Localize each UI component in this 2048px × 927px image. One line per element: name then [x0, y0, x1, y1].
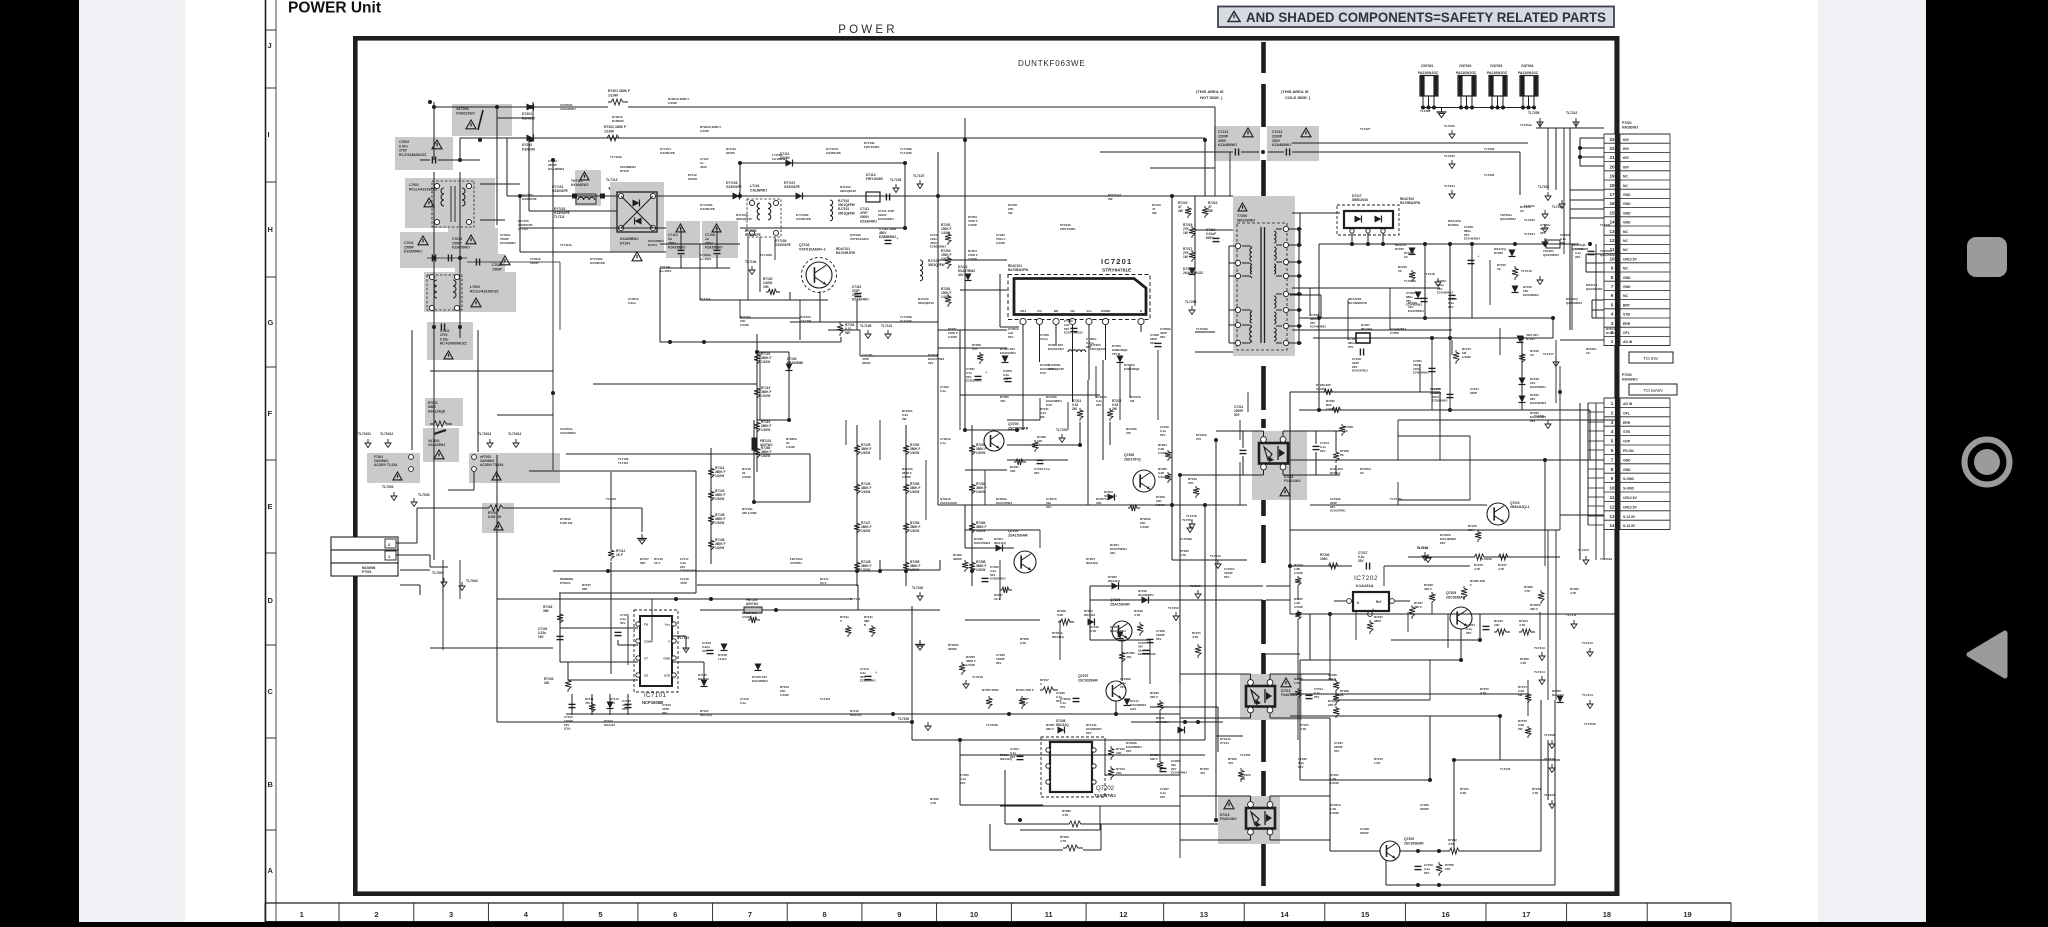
Q7202 pin — [1092, 780, 1096, 784]
pin — [773, 230, 778, 235]
junction — [1366, 242, 1370, 246]
warning triangle — [393, 472, 402, 480]
svg-text:39K: 39K — [543, 609, 550, 613]
diode — [1002, 356, 1009, 363]
pin — [636, 656, 640, 660]
junction — [1416, 849, 1420, 853]
wire — [1276, 325, 1282, 327]
wire — [716, 228, 718, 250]
svg-text:250V: 250V — [1272, 139, 1281, 143]
wire — [571, 694, 573, 715]
svg-text:IC7202: IC7202 — [1354, 575, 1378, 582]
svg-text:K1A431A: K1A431A — [1356, 583, 1374, 588]
svg-text:EXA621WJ: EXA621WJ — [1048, 347, 1064, 351]
wire — [1269, 674, 1271, 680]
resistor — [1326, 563, 1342, 569]
capacitor — [1306, 694, 1313, 696]
junction — [1297, 274, 1301, 278]
diode — [1058, 727, 1065, 734]
svg-text:FXA014WJ: FXA014WJ — [1220, 817, 1237, 821]
wire — [477, 330, 479, 452]
junction — [1448, 242, 1452, 246]
capacitor — [982, 577, 989, 579]
winding — [768, 203, 771, 220]
pin — [409, 455, 414, 460]
diode — [996, 545, 1003, 552]
junction — [1178, 473, 1182, 477]
svg-text:5: 5 — [1611, 439, 1614, 444]
svg-text:2W: 2W — [1072, 407, 1077, 411]
svg-text:TL7252: TL7252 — [1168, 606, 1179, 610]
wire — [1595, 244, 1597, 318]
varistor VA7002 — [478, 110, 483, 130]
pin — [1366, 229, 1370, 233]
junction — [551, 158, 555, 162]
svg-text:MA111Q: MA111Q — [1552, 693, 1564, 697]
wire — [1180, 717, 1251, 719]
svg-text:EZB593WJ22: EZB593WJ22 — [1138, 652, 1156, 656]
resistor — [1409, 270, 1415, 282]
shaded area C7114 — [666, 221, 700, 258]
svg-text:A007WJ: A007WJ — [746, 602, 759, 606]
transformer T7206 winding box — [1237, 223, 1287, 350]
svg-text:1/10W: 1/10W — [861, 568, 870, 572]
pin — [773, 200, 778, 205]
pin — [1086, 318, 1092, 324]
junction — [1513, 242, 1517, 246]
pin — [1283, 226, 1288, 231]
svg-text:7: 7 — [1611, 284, 1614, 289]
resistor — [708, 513, 714, 527]
svg-text:WA111Q: WA111Q — [1086, 561, 1099, 565]
pin — [1248, 680, 1254, 686]
svg-text:12: 12 — [1119, 910, 1127, 919]
wire — [1290, 391, 1440, 393]
wire — [739, 163, 741, 196]
svg-text:NA093WJ: NA093WJ — [1622, 377, 1638, 381]
resistor — [1165, 450, 1171, 461]
junction — [709, 597, 713, 601]
svg-text:6: 6 — [1611, 448, 1614, 453]
svg-text:H: H — [268, 225, 273, 234]
diode — [607, 702, 614, 709]
wire — [1269, 796, 1271, 802]
junction — [1196, 720, 1200, 724]
pin — [429, 305, 434, 310]
svg-text:15: 15 — [1609, 210, 1615, 215]
svg-text:4.7K: 4.7K — [1062, 813, 1069, 817]
svg-text:1/10W: 1/10W — [996, 241, 1005, 245]
resistor — [845, 625, 851, 637]
wire — [1289, 325, 1302, 327]
pin — [1235, 322, 1240, 327]
svg-text:3: 3 — [1611, 420, 1614, 425]
resistor — [969, 560, 975, 574]
resistor — [837, 322, 843, 336]
wire — [925, 460, 927, 520]
svg-text:0.1u: 0.1u — [740, 701, 746, 705]
shaded area D7104 — [610, 182, 664, 252]
svg-text:TL7116: TL7116 — [850, 597, 861, 601]
wire — [559, 593, 561, 662]
wire — [799, 300, 801, 340]
wire — [1449, 244, 1451, 338]
wire — [938, 195, 1195, 197]
wire — [1385, 861, 1387, 885]
svg-text:330 1/10W: 330 1/10W — [742, 511, 757, 515]
svg-text:10K: 10K — [1096, 501, 1102, 505]
svg-text:RA70BWJFW: RA70BWJFW — [1008, 268, 1028, 272]
svg-text:AD IN: AD IN — [1623, 340, 1633, 344]
wire — [790, 321, 938, 323]
wire — [1469, 436, 1471, 500]
svg-text:TL7227: TL7227 — [1360, 127, 1371, 131]
wire — [1555, 530, 1557, 700]
svg-text:GND: GND — [1623, 202, 1631, 206]
wire — [1214, 148, 1216, 196]
wire — [559, 592, 696, 594]
capacitor — [1213, 237, 1220, 239]
svg-text:HOT SIDE. ): HOT SIDE. ) — [1200, 95, 1223, 100]
svg-text:S2V60: S2V60 — [688, 177, 697, 181]
svg-text:KZA267WJ: KZA267WJ — [1352, 369, 1368, 373]
wire — [433, 107, 435, 160]
wire — [1615, 460, 1617, 614]
svg-text:EXA57BWJ: EXA57BWJ — [974, 541, 991, 545]
wire — [1588, 411, 1604, 413]
pin — [409, 467, 414, 472]
shaded area TH7101 — [575, 170, 601, 206]
wire — [497, 414, 553, 416]
svg-text:TL7253b: TL7253b — [1180, 537, 1192, 541]
pin — [434, 183, 439, 188]
wire — [799, 318, 801, 340]
Q7202 pin — [1046, 764, 1050, 768]
pin — [650, 193, 655, 198]
svg-text:VB30413Q/-1: VB30413Q/-1 — [1510, 505, 1530, 509]
wire — [1559, 366, 1561, 460]
wire — [434, 106, 608, 108]
resistor — [854, 521, 860, 535]
svg-text:9: 9 — [1611, 266, 1614, 271]
optocoupler D7214 — [1246, 686, 1275, 707]
pin — [1267, 829, 1273, 835]
resistor — [1429, 592, 1435, 604]
wire — [753, 450, 755, 502]
svg-text:AC250V T3.15A: AC250V T3.15A — [480, 463, 504, 467]
svg-text:TL7211: TL7211 — [1566, 613, 1577, 617]
wire — [1547, 128, 1549, 190]
wire — [1290, 565, 1352, 567]
shaded area C7024 — [448, 228, 498, 268]
wire — [1283, 474, 1340, 476]
svg-text:4: 4 — [1611, 312, 1614, 317]
svg-text:TL7218: TL7218 — [972, 675, 983, 679]
wire — [739, 300, 741, 318]
transistor — [1106, 681, 1126, 701]
svg-text:8: 8 — [823, 910, 827, 919]
shaded area F7002 — [469, 453, 560, 483]
svg-text:TL7233: TL7233 — [1444, 154, 1455, 158]
svg-text:TL7108: TL7108 — [898, 717, 909, 721]
wire — [1276, 309, 1282, 311]
wire — [1544, 530, 1546, 566]
wire — [760, 299, 828, 301]
svg-text:NA26DWJ: NA26DWJ — [1622, 125, 1638, 129]
svg-text:1/10W: 1/10W — [604, 129, 615, 133]
junction — [458, 256, 462, 260]
pin — [749, 200, 754, 205]
pin — [1235, 243, 1240, 248]
diode — [633, 200, 640, 207]
wire — [1453, 760, 1455, 848]
junction — [529, 105, 533, 109]
junction — [606, 569, 610, 573]
svg-text:PS.ON: PS.ON — [1623, 449, 1634, 453]
svg-text:1K F: 1K F — [616, 553, 623, 557]
test point — [1061, 434, 1063, 438]
wire — [1276, 275, 1282, 277]
wire — [1149, 640, 1151, 684]
pin — [1235, 273, 1240, 278]
resistor — [1525, 726, 1531, 738]
svg-text:NC: NC — [1623, 267, 1628, 271]
junction — [1498, 714, 1502, 718]
wire — [999, 560, 1001, 600]
capacitor — [1073, 697, 1080, 699]
wire — [1309, 614, 1311, 660]
junction — [1297, 324, 1301, 328]
pin — [1283, 242, 1288, 247]
AC inlet connector P7001 — [331, 537, 398, 550]
svg-text:TL7001: TL7001 — [382, 485, 394, 489]
pin — [454, 305, 459, 310]
svg-text:COLD SIDE. ): COLD SIDE. ) — [1285, 95, 1311, 100]
svg-text:14: 14 — [1280, 910, 1289, 919]
wire — [1239, 462, 1241, 505]
resistor — [1108, 746, 1114, 760]
svg-text:KZA4B9WJ: KZA4B9WJ — [1218, 143, 1237, 147]
junction — [1297, 292, 1301, 296]
resistor — [962, 560, 968, 572]
wire — [1217, 707, 1219, 752]
warning triangle — [424, 198, 434, 207]
svg-text:EXA550WJ: EXA550WJ — [1530, 385, 1546, 389]
svg-text:OVP: OVP — [1623, 440, 1631, 444]
test point — [1217, 560, 1219, 564]
test point — [1191, 306, 1193, 310]
warning triangle — [676, 224, 685, 232]
svg-text:TL7216b: TL7216b — [1404, 279, 1416, 283]
wire — [452, 159, 480, 161]
svg-text:2SC3928AR: 2SC3928AR — [1446, 595, 1466, 599]
svg-text:+: + — [896, 236, 899, 241]
wire — [759, 237, 761, 292]
wire — [1150, 706, 1218, 708]
diode module D7217 body — [1344, 211, 1393, 228]
test point — [1451, 190, 1453, 194]
wire — [1586, 262, 1604, 264]
junction — [1532, 106, 1536, 110]
svg-text:GZ3001PE: GZ3001PE — [590, 261, 605, 265]
wire — [1585, 254, 1587, 272]
svg-text:8: 8 — [1611, 467, 1614, 472]
wire — [1397, 482, 1399, 505]
warning triangle — [466, 120, 476, 129]
resistor — [754, 386, 760, 400]
svg-text:50V: 50V — [1234, 413, 1241, 417]
resistor — [1409, 605, 1415, 619]
svg-text:WA111Q: WA111Q — [994, 541, 1007, 545]
resistor — [1494, 629, 1510, 635]
wire — [1489, 260, 1491, 305]
resistor — [1538, 590, 1544, 604]
resistor — [854, 482, 860, 496]
svg-text:AD IN: AD IN — [1623, 402, 1633, 406]
svg-text:470: 470 — [1200, 771, 1205, 775]
resistor — [1019, 696, 1025, 709]
diode — [733, 193, 740, 200]
svg-text:1/10W: 1/10W — [786, 445, 795, 449]
ruler tick — [265, 459, 276, 461]
wire — [1386, 884, 1555, 886]
svg-text:3: 3 — [1611, 321, 1614, 326]
wire — [1527, 680, 1529, 704]
svg-text:TL7110: TL7110 — [618, 461, 629, 465]
svg-text:FWY1036S: FWY1036S — [866, 177, 884, 181]
svg-text:TL7233: TL7233 — [1524, 218, 1535, 222]
wire — [506, 138, 508, 196]
svg-text:5W: 5W — [845, 331, 850, 335]
svg-text:AND SHADED COMPONENTS=SAFETY R: AND SHADED COMPONENTS=SAFETY RELATED PAR… — [1246, 10, 1606, 25]
svg-text:GND: GND — [1623, 285, 1631, 289]
wire — [1195, 351, 1233, 353]
junction — [1520, 336, 1524, 340]
svg-text:GZ3001PE: GZ3001PE — [552, 189, 568, 193]
wire — [1129, 366, 1131, 398]
svg-text:TL7229: TL7229 — [1484, 147, 1495, 151]
wire — [1289, 392, 1291, 566]
warning triangle — [434, 450, 444, 459]
capacitor — [1313, 445, 1320, 447]
svg-text:VXA022WJ: VXA022WJ — [456, 112, 475, 116]
wire — [1090, 639, 1150, 641]
wire — [559, 262, 561, 330]
svg-text:CS: CS — [644, 674, 648, 678]
wire — [1391, 639, 1480, 641]
wire — [703, 662, 705, 686]
svg-text:1/10W: 1/10W — [740, 323, 749, 327]
wire — [442, 560, 444, 650]
wire — [828, 329, 860, 331]
winding — [830, 200, 833, 221]
wire — [1539, 612, 1541, 640]
line filter L7001 — [432, 181, 474, 227]
pin — [434, 219, 439, 224]
junction — [1114, 712, 1118, 716]
pin — [1283, 340, 1288, 345]
ruler tick — [265, 29, 276, 31]
wire — [960, 289, 1007, 291]
resistor — [1472, 554, 1488, 560]
wire — [1351, 233, 1353, 244]
wire — [1588, 524, 1604, 526]
Q7202 pin — [1092, 764, 1096, 768]
shaded area C7212 — [1214, 126, 1260, 161]
wire — [1195, 195, 1233, 197]
shaded area VA7002 — [452, 104, 512, 136]
junction — [1428, 778, 1432, 782]
wire — [520, 227, 680, 229]
svg-text:1/10W: 1/10W — [966, 663, 975, 667]
svg-text:WA32WWJ: WA32WWJ — [1237, 218, 1255, 222]
svg-text:25V: 25V — [1320, 449, 1325, 453]
svg-text:2.2K: 2.2K — [1460, 791, 1467, 795]
capacitor — [678, 249, 685, 251]
bridge rectifier D7104 — [617, 192, 657, 232]
svg-text:2KA070WJ22: 2KA070WJ22 — [1183, 271, 1203, 275]
wire — [999, 274, 1001, 327]
wire — [1552, 318, 1554, 338]
svg-text:GND: GND — [1623, 276, 1631, 280]
resistor — [604, 135, 624, 141]
shaded area C7108 — [702, 221, 738, 258]
capacitor — [1147, 638, 1154, 640]
diode — [527, 104, 534, 111]
svg-text:50V: 50V — [996, 661, 1001, 665]
svg-text:1/10W: 1/10W — [1330, 781, 1339, 785]
resistor — [1066, 821, 1086, 827]
svg-text:1/10W: 1/10W — [941, 295, 950, 299]
junction — [903, 161, 907, 165]
test point — [867, 330, 869, 334]
svg-text:NC: NC — [1623, 184, 1628, 188]
wire — [430, 566, 448, 568]
wire — [1172, 559, 1205, 561]
wire — [1007, 444, 1080, 446]
pin — [672, 656, 676, 660]
wire — [1570, 217, 1604, 219]
svg-text:4.7K: 4.7K — [1524, 589, 1531, 593]
wire — [628, 106, 1215, 108]
wire — [610, 472, 612, 548]
test point — [1191, 520, 1193, 524]
warning triangle — [580, 172, 589, 180]
ruler tick — [265, 87, 276, 89]
svg-text:F: F — [1470, 583, 1472, 587]
warning triangle — [494, 522, 503, 530]
svg-text:1/10W: 1/10W — [976, 490, 985, 494]
wire — [1140, 325, 1142, 332]
warning triangle — [1301, 128, 1311, 137]
svg-text:27K: 27K — [1188, 481, 1194, 485]
wire — [1250, 835, 1252, 840]
svg-text:GND: GND — [1623, 458, 1631, 462]
wire — [754, 501, 810, 503]
wire — [1521, 338, 1523, 410]
thermistor TH7201 — [1546, 240, 1560, 248]
svg-text:RA704RJFW: RA704RJFW — [836, 251, 855, 255]
wire — [938, 259, 1007, 261]
shaded area D7213 — [1218, 796, 1280, 844]
resistor — [1333, 706, 1339, 718]
svg-text:2W: 2W — [1208, 209, 1213, 213]
svg-text:18: 18 — [1603, 910, 1611, 919]
shaded area L7002 — [424, 272, 516, 312]
wire — [1179, 684, 1181, 826]
svg-text:KZA650WJ: KZA650WJ — [452, 246, 470, 250]
winding — [578, 197, 595, 200]
